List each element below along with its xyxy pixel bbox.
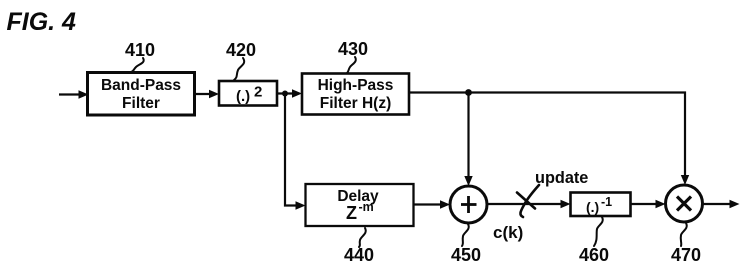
svg-text:Band-Pass: Band-Pass [101, 77, 181, 94]
svg-text:High-Pass: High-Pass [318, 77, 394, 94]
svg-text:2: 2 [254, 84, 262, 101]
svg-text:(.): (.) [236, 88, 250, 105]
svg-text:Filter: Filter [122, 95, 160, 112]
svg-text:-m: -m [359, 200, 374, 214]
svg-text:update: update [535, 169, 588, 187]
svg-text:420: 420 [226, 40, 256, 60]
svg-text:(.): (.) [586, 199, 599, 215]
svg-text:470: 470 [671, 245, 701, 265]
svg-text:460: 460 [579, 245, 609, 265]
svg-text:FIG. 4: FIG. 4 [7, 8, 77, 36]
svg-text:410: 410 [125, 40, 155, 60]
svg-text:430: 430 [338, 39, 368, 59]
svg-text:Z: Z [346, 203, 357, 223]
svg-text:c(k): c(k) [493, 223, 523, 242]
svg-text:-1: -1 [601, 195, 612, 209]
svg-text:440: 440 [344, 245, 374, 265]
svg-text:450: 450 [451, 245, 481, 265]
svg-text:Filter H(z): Filter H(z) [320, 95, 391, 112]
